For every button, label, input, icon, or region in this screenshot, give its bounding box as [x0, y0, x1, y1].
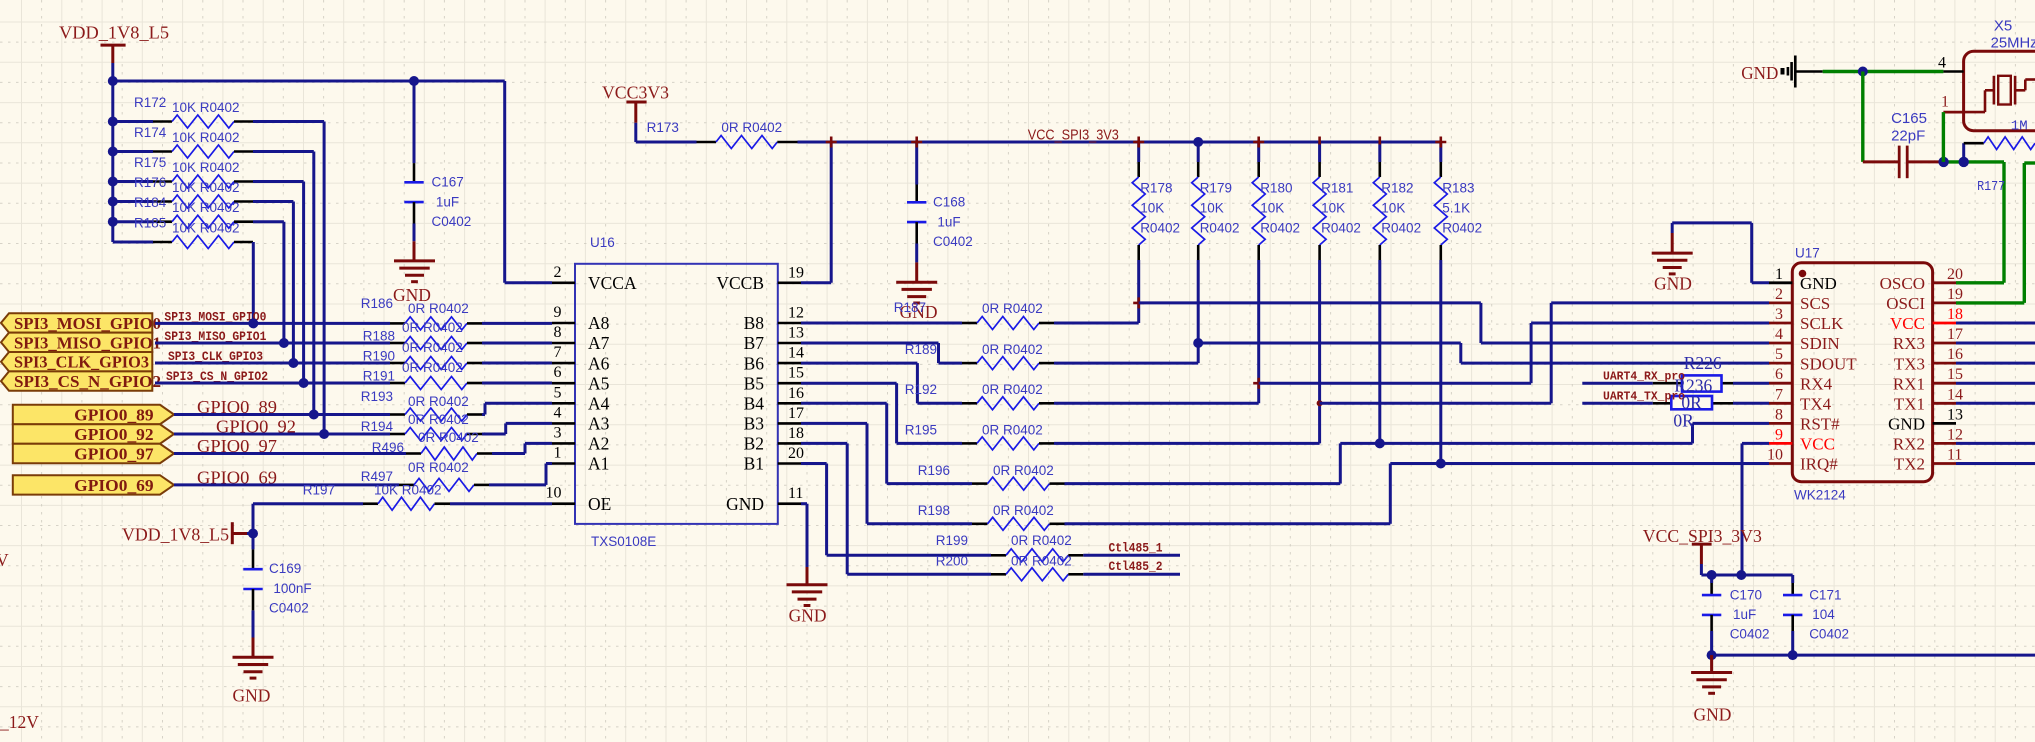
- svg-text:VCCB: VCCB: [716, 273, 764, 293]
- svg-text:10K: 10K: [1381, 201, 1405, 216]
- svg-text:R178: R178: [1140, 181, 1172, 196]
- svg-text:GND: GND: [1800, 274, 1837, 293]
- svg-text:0R R0402: 0R R0402: [418, 430, 479, 445]
- svg-text:GPIO0_97: GPIO0_97: [74, 445, 153, 464]
- svg-text:SDIN: SDIN: [1800, 334, 1840, 353]
- svg-text:15: 15: [788, 365, 804, 382]
- svg-text:A1: A1: [588, 454, 609, 474]
- svg-text:A7: A7: [588, 333, 610, 353]
- svg-text:R192: R192: [905, 382, 937, 397]
- svg-text:R177: R177: [1977, 180, 2005, 195]
- svg-text:R183: R183: [1442, 181, 1474, 196]
- svg-text:3: 3: [554, 424, 562, 441]
- svg-text:R174: R174: [134, 125, 167, 140]
- svg-text:10K: 10K: [1321, 201, 1345, 216]
- svg-text:6: 6: [554, 364, 562, 381]
- svg-text:10: 10: [1767, 447, 1783, 464]
- svg-text:VDD_1V8_L5: VDD_1V8_L5: [122, 525, 229, 545]
- svg-text:13: 13: [1947, 406, 1963, 423]
- svg-text:11: 11: [1947, 447, 1962, 464]
- svg-text:OSCI: OSCI: [1886, 294, 1925, 313]
- svg-text:A3: A3: [588, 414, 610, 434]
- svg-text:8: 8: [1775, 406, 1783, 423]
- svg-text:GND: GND: [789, 606, 827, 626]
- svg-text:GND: GND: [1693, 705, 1731, 725]
- svg-text:5: 5: [554, 384, 562, 401]
- svg-text:0R: 0R: [1681, 393, 1702, 413]
- svg-text:4: 4: [554, 404, 562, 421]
- svg-text:R198: R198: [918, 503, 950, 518]
- svg-text:VCCA: VCCA: [588, 273, 637, 293]
- svg-text:GPIO0_69: GPIO0_69: [74, 476, 153, 495]
- svg-text:VCC3V3: VCC3V3: [602, 83, 669, 103]
- svg-text:9: 9: [1775, 426, 1783, 443]
- svg-text:7: 7: [1775, 386, 1783, 403]
- svg-text:GND: GND: [1741, 63, 1778, 83]
- svg-text:RST#: RST#: [1800, 415, 1840, 434]
- svg-text:10K: 10K: [1200, 201, 1224, 216]
- svg-text:R200: R200: [936, 554, 968, 569]
- svg-text:B8: B8: [744, 313, 765, 333]
- svg-text:9: 9: [554, 304, 562, 321]
- svg-text:SPI3_MOSI_GPIO0: SPI3_MOSI_GPIO0: [14, 314, 161, 333]
- svg-text:0R R0402: 0R R0402: [993, 463, 1054, 478]
- svg-text:8: 8: [554, 324, 562, 341]
- svg-text:R191: R191: [363, 369, 395, 384]
- svg-text:18: 18: [1947, 306, 1963, 323]
- svg-text:1: 1: [1941, 94, 1949, 111]
- svg-text:C0402: C0402: [432, 214, 472, 229]
- svg-text:R186: R186: [361, 296, 393, 311]
- svg-text:10K R0402: 10K R0402: [172, 160, 240, 175]
- svg-text:A6: A6: [588, 353, 610, 373]
- svg-text:Ctl485_1: Ctl485_1: [1109, 541, 1163, 556]
- svg-text:B5: B5: [744, 373, 765, 393]
- svg-text:104: 104: [1812, 607, 1835, 622]
- svg-text:20: 20: [788, 445, 804, 462]
- svg-text:0R R0402: 0R R0402: [982, 423, 1043, 438]
- svg-text:C0402: C0402: [1809, 627, 1849, 642]
- svg-text:4: 4: [1938, 55, 1946, 72]
- svg-text:19: 19: [1947, 286, 1963, 303]
- svg-text:VDD_1V8_L5: VDD_1V8_L5: [59, 23, 169, 43]
- svg-text:GND: GND: [1888, 415, 1925, 434]
- svg-text:10K R0402: 10K R0402: [172, 180, 240, 195]
- svg-text:20: 20: [1947, 266, 1963, 283]
- svg-text:GPIO0_89: GPIO0_89: [74, 406, 153, 425]
- svg-text:R189: R189: [905, 342, 937, 357]
- svg-text:0R R0402: 0R R0402: [982, 301, 1043, 316]
- svg-text:10K: 10K: [1140, 201, 1164, 216]
- svg-text:GND: GND: [233, 686, 271, 706]
- svg-text:14: 14: [788, 345, 804, 362]
- svg-text:22pF: 22pF: [1891, 128, 1925, 145]
- svg-text:R197: R197: [303, 483, 335, 498]
- svg-text:SPI3_CS_N_GPIO2: SPI3_CS_N_GPIO2: [14, 372, 161, 391]
- svg-text:0R: 0R: [1673, 411, 1694, 431]
- svg-text:U16: U16: [590, 235, 615, 250]
- svg-text:IRQ#: IRQ#: [1800, 455, 1838, 474]
- svg-text:TX3: TX3: [1894, 354, 1925, 373]
- svg-text:0R R0402: 0R R0402: [982, 342, 1043, 357]
- svg-text:10K R0402: 10K R0402: [172, 100, 240, 115]
- svg-text:VCC: VCC: [1890, 314, 1925, 333]
- svg-text:B1: B1: [744, 454, 764, 474]
- svg-text:R188: R188: [363, 329, 395, 344]
- svg-text:R199: R199: [936, 533, 968, 548]
- svg-text:19: 19: [788, 264, 804, 281]
- svg-text:10K R0402: 10K R0402: [172, 200, 240, 215]
- svg-text:RX1: RX1: [1893, 374, 1925, 393]
- svg-text:0R R0402: 0R R0402: [402, 360, 463, 375]
- svg-text:R176: R176: [134, 175, 166, 190]
- svg-text:0R R0402: 0R R0402: [402, 340, 463, 355]
- svg-text:R175: R175: [134, 155, 166, 170]
- svg-text:B2: B2: [744, 434, 764, 454]
- svg-text:10K R0402: 10K R0402: [172, 130, 240, 145]
- svg-text:R0402: R0402: [1321, 221, 1361, 236]
- svg-text:1: 1: [554, 445, 562, 462]
- svg-text:Ctl485_2: Ctl485_2: [1109, 559, 1163, 574]
- svg-text:10K R0402: 10K R0402: [374, 483, 442, 498]
- svg-text:C168: C168: [933, 195, 965, 210]
- svg-text:13: 13: [788, 325, 804, 342]
- svg-text:3: 3: [1775, 306, 1783, 323]
- svg-text:OE: OE: [588, 494, 611, 514]
- svg-text:TX2: TX2: [1894, 455, 1925, 474]
- svg-text:_12V: _12V: [0, 712, 39, 732]
- svg-text:R181: R181: [1321, 181, 1353, 196]
- svg-text:WK2124: WK2124: [1794, 488, 1846, 503]
- svg-text:4: 4: [1775, 326, 1783, 343]
- svg-text:7: 7: [554, 344, 562, 361]
- svg-text:10: 10: [546, 485, 562, 502]
- svg-text:16: 16: [1947, 346, 1963, 363]
- svg-text:17: 17: [788, 405, 804, 422]
- svg-text:R0402: R0402: [1140, 221, 1180, 236]
- svg-text:0R R0402: 0R R0402: [408, 460, 469, 475]
- svg-text:R496: R496: [372, 440, 404, 455]
- svg-text:17: 17: [1947, 326, 1963, 343]
- svg-text:R195: R195: [905, 423, 937, 438]
- svg-text:16: 16: [788, 385, 804, 402]
- svg-text:10K R0402: 10K R0402: [172, 221, 240, 236]
- svg-text:SCLK: SCLK: [1800, 314, 1844, 333]
- svg-text:C167: C167: [432, 175, 464, 190]
- svg-text:UART4_RX_pro: UART4_RX_pro: [1603, 371, 1685, 384]
- svg-text:RX4: RX4: [1800, 374, 1833, 393]
- svg-text:5.1K: 5.1K: [1442, 201, 1470, 216]
- svg-text:2: 2: [554, 264, 562, 281]
- svg-text:X5: X5: [1994, 18, 2012, 35]
- svg-text:B4: B4: [744, 394, 765, 414]
- svg-text:R173: R173: [647, 120, 679, 135]
- svg-text:R193: R193: [361, 389, 393, 404]
- svg-text:0R R0402: 0R R0402: [402, 320, 463, 335]
- svg-text:R179: R179: [1200, 181, 1232, 196]
- svg-text:0R R0402: 0R R0402: [1011, 554, 1072, 569]
- svg-text:15: 15: [1947, 366, 1963, 383]
- svg-text:C171: C171: [1809, 587, 1841, 602]
- svg-text:0R R0402: 0R R0402: [1011, 533, 1072, 548]
- svg-text:R172: R172: [134, 95, 166, 110]
- svg-text:SPI3_CLK_GPIO3: SPI3_CLK_GPIO3: [14, 353, 149, 372]
- svg-text:R185: R185: [134, 216, 166, 231]
- svg-text:12: 12: [1947, 426, 1963, 443]
- svg-text:SCS: SCS: [1800, 294, 1830, 313]
- svg-text:GND: GND: [726, 494, 764, 514]
- svg-text:1uF: 1uF: [937, 214, 960, 229]
- svg-text:2: 2: [1775, 286, 1783, 303]
- svg-text:R196: R196: [918, 463, 950, 478]
- svg-text:18: 18: [788, 425, 804, 442]
- svg-text:1uF: 1uF: [1733, 607, 1756, 622]
- svg-text:5: 5: [1775, 346, 1783, 363]
- svg-text:C170: C170: [1730, 587, 1762, 602]
- svg-text:A2: A2: [588, 434, 609, 454]
- svg-text:C0402: C0402: [1730, 627, 1770, 642]
- svg-text:C0402: C0402: [933, 234, 973, 249]
- svg-text:SPI3_MISO_GPIO1: SPI3_MISO_GPIO1: [14, 333, 161, 352]
- svg-text:RX2: RX2: [1893, 435, 1925, 454]
- svg-text:0R R0402: 0R R0402: [982, 382, 1043, 397]
- svg-text:1uF: 1uF: [436, 194, 459, 209]
- svg-text:SDOUT: SDOUT: [1800, 354, 1857, 373]
- svg-text:R0402: R0402: [1200, 221, 1240, 236]
- svg-text:R0402: R0402: [1381, 221, 1421, 236]
- svg-text:TX4: TX4: [1800, 395, 1832, 414]
- svg-text:B3: B3: [744, 414, 765, 434]
- svg-text:VCC: VCC: [1800, 435, 1835, 454]
- svg-text:0R R0402: 0R R0402: [408, 412, 469, 427]
- svg-text:RX3: RX3: [1893, 334, 1925, 353]
- svg-text:R194: R194: [361, 419, 394, 434]
- svg-text:V: V: [0, 550, 9, 570]
- svg-text:C165: C165: [1891, 110, 1927, 127]
- svg-text:GND: GND: [1654, 274, 1692, 294]
- svg-text:R190: R190: [363, 349, 395, 364]
- svg-text:25MHz: 25MHz: [1991, 35, 2035, 52]
- svg-text:GPIO0_92: GPIO0_92: [74, 425, 153, 444]
- svg-text:R180: R180: [1260, 181, 1292, 196]
- svg-text:10K: 10K: [1260, 201, 1284, 216]
- svg-text:0R R0402: 0R R0402: [408, 394, 469, 409]
- svg-text:R182: R182: [1381, 181, 1413, 196]
- svg-text:U17: U17: [1795, 246, 1820, 261]
- svg-text:R184: R184: [134, 195, 167, 210]
- svg-text:UART4_TX_pro: UART4_TX_pro: [1603, 391, 1685, 404]
- svg-text:6: 6: [1775, 366, 1783, 383]
- svg-text:14: 14: [1947, 386, 1963, 403]
- svg-text:R226: R226: [1684, 353, 1722, 373]
- svg-text:R0402: R0402: [1260, 221, 1300, 236]
- svg-text:A8: A8: [588, 313, 610, 333]
- svg-text:12: 12: [788, 305, 804, 322]
- svg-text:A4: A4: [588, 394, 610, 414]
- svg-text:B6: B6: [744, 353, 765, 373]
- svg-text:B7: B7: [744, 333, 765, 353]
- svg-text:R0402: R0402: [1442, 221, 1482, 236]
- svg-text:C169: C169: [269, 561, 301, 576]
- svg-text:A5: A5: [588, 373, 610, 393]
- svg-text:0R R0402: 0R R0402: [721, 120, 782, 135]
- svg-text:100nF: 100nF: [273, 581, 311, 596]
- svg-text:11: 11: [788, 485, 803, 502]
- svg-text:C0402: C0402: [269, 601, 309, 616]
- svg-text:0R R0402: 0R R0402: [993, 503, 1054, 518]
- svg-text:VCC_SPI3_3V3: VCC_SPI3_3V3: [1028, 127, 1119, 144]
- svg-text:OSCO: OSCO: [1880, 274, 1925, 293]
- svg-text:TXS0108E: TXS0108E: [591, 534, 656, 549]
- svg-text:TX1: TX1: [1894, 395, 1925, 414]
- svg-text:0R R0402: 0R R0402: [408, 301, 469, 316]
- svg-text:1: 1: [1775, 266, 1783, 283]
- svg-text:R187: R187: [894, 300, 926, 315]
- svg-text:1M: 1M: [2011, 119, 2028, 135]
